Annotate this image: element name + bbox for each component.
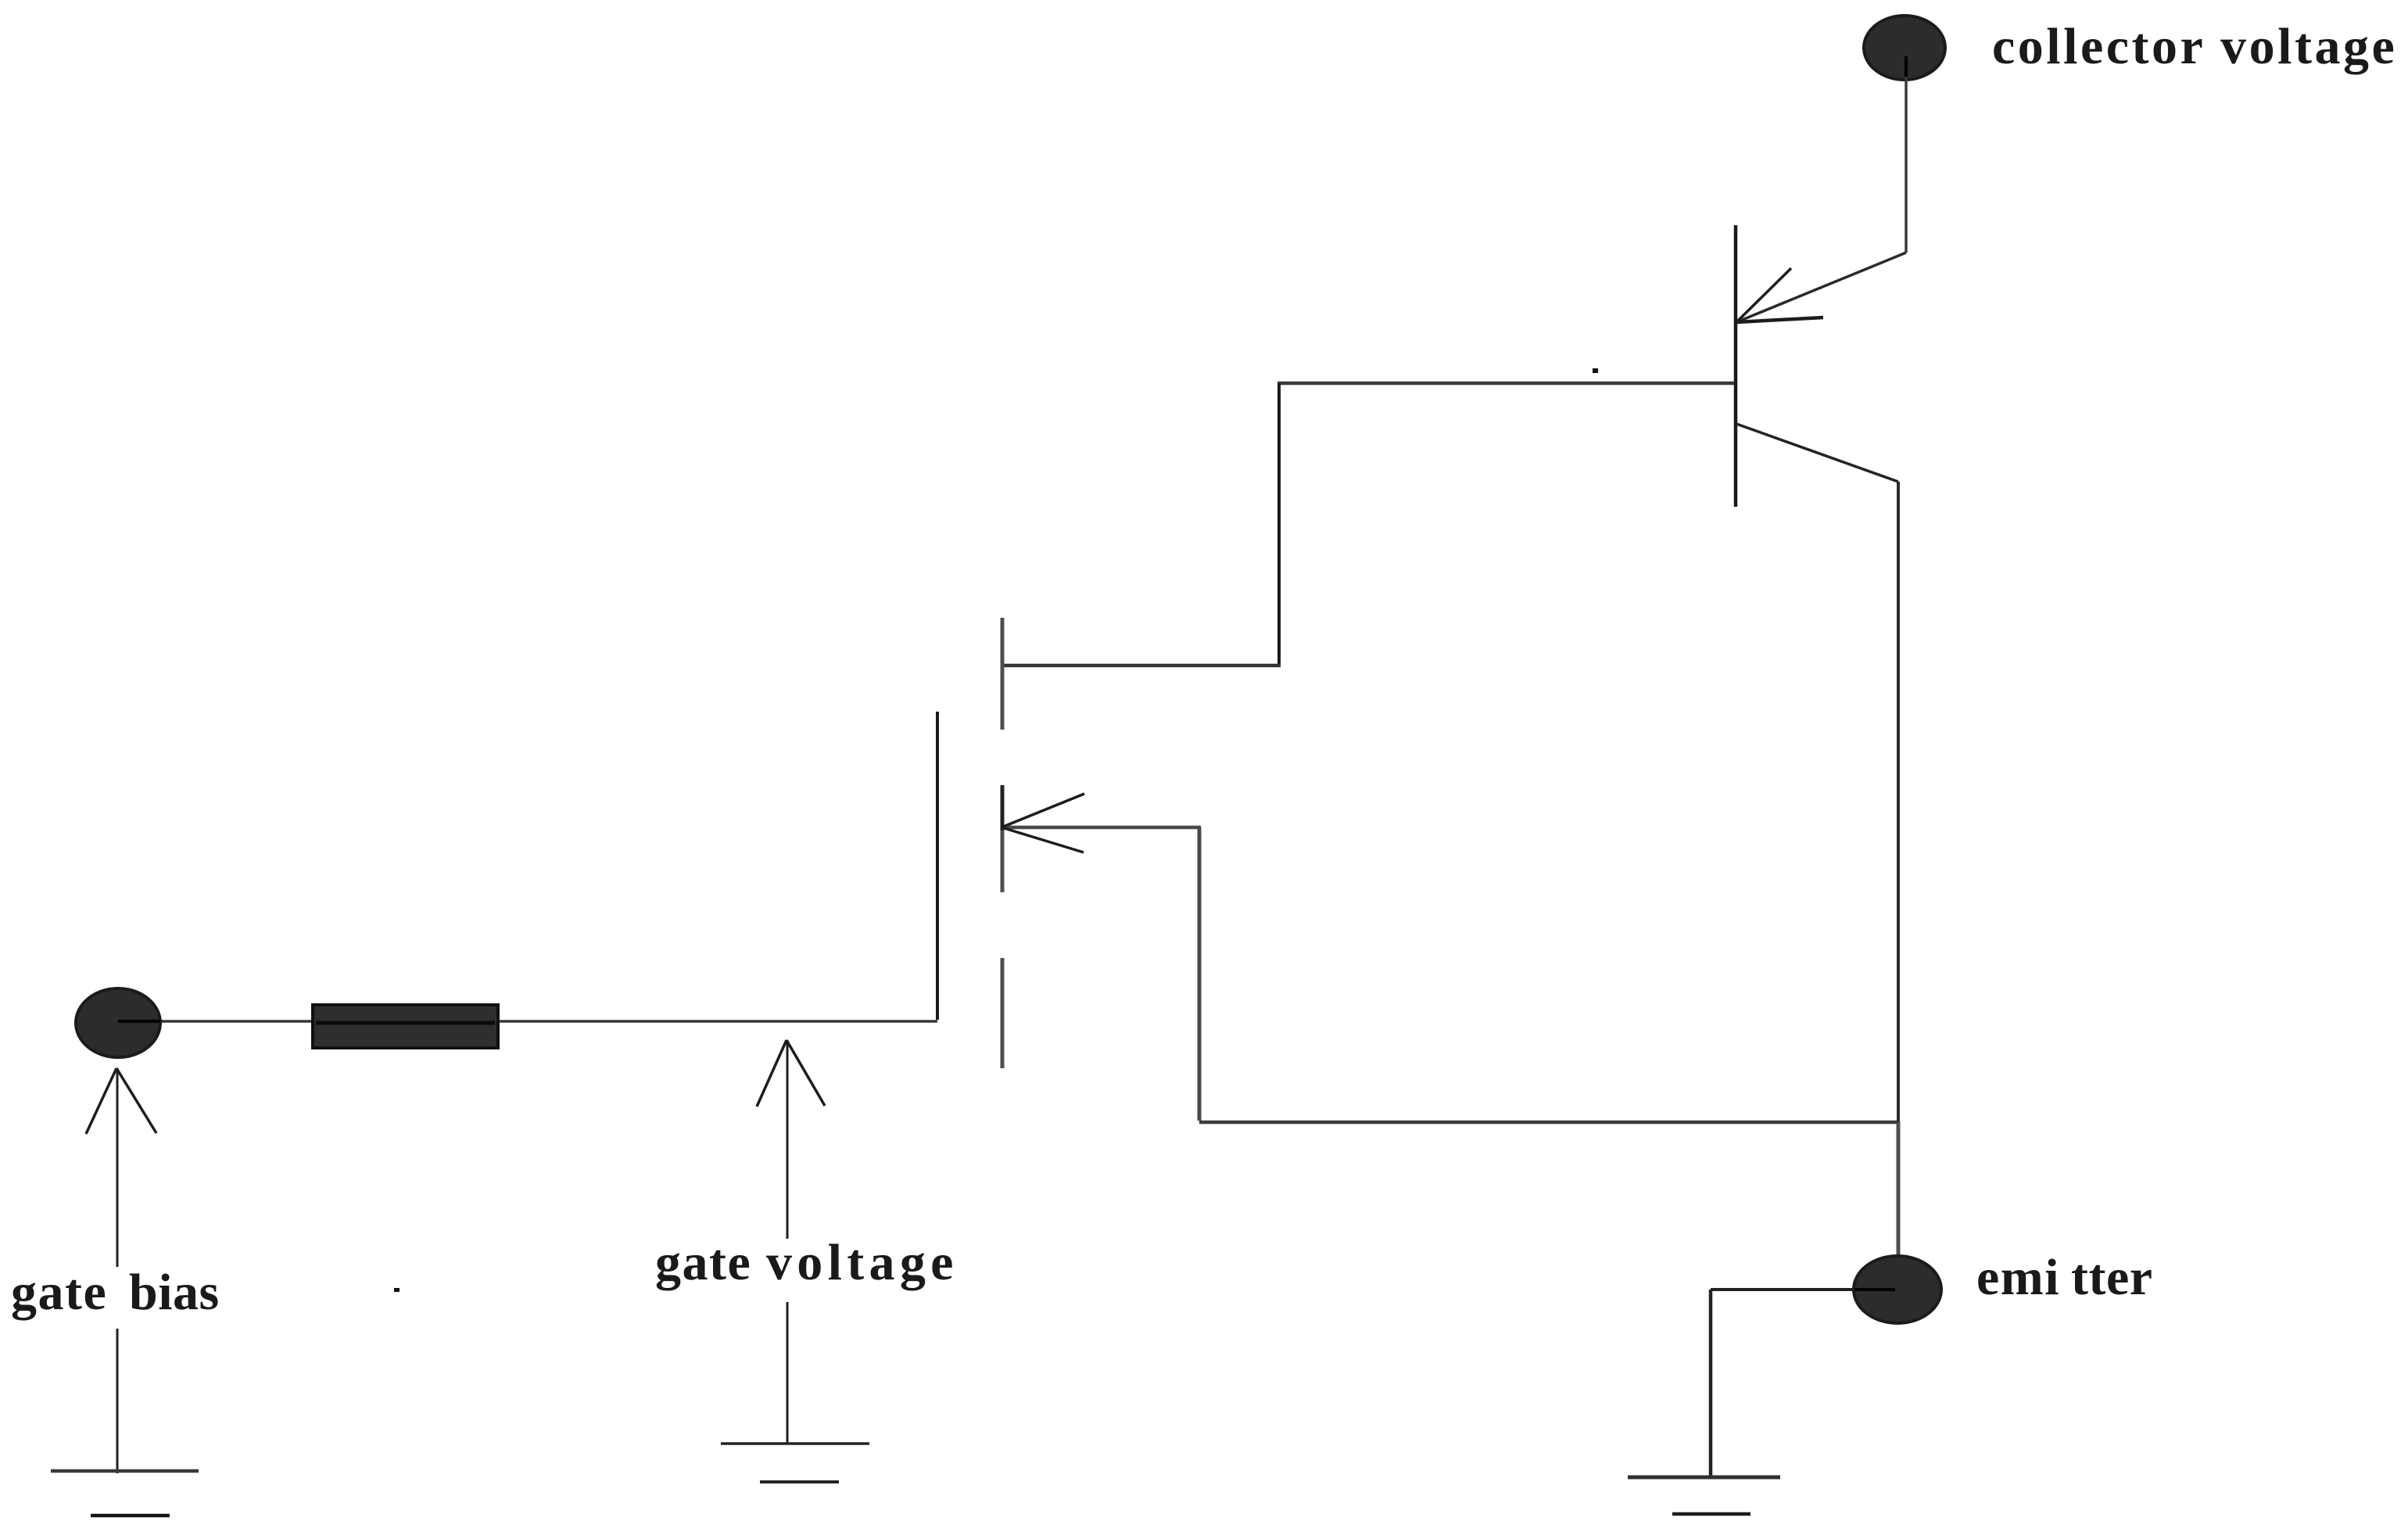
MOSFET M1 channel dash 2 (body): [1001, 785, 1005, 830]
gate bias arrow stem: [116, 1068, 119, 1267]
MOSFET M1 channel dash 1 (drain): [1001, 618, 1005, 730]
gate voltage arrowhead: [757, 1040, 787, 1107]
stray dot A: [1593, 368, 1598, 373]
wire: drain horizontal: [1002, 664, 1281, 668]
ground (gate bias) line 1: [51, 1469, 199, 1473]
wire: emitter ground horizontal: [1711, 1288, 1854, 1291]
wire: emitter vertical lower: [1897, 1122, 1901, 1257]
gate bias arrowhead: [86, 1068, 116, 1134]
transistor Q1 base bar: [1734, 225, 1738, 507]
body arrow barb lower: [1002, 827, 1084, 852]
svg-text:tter: tter: [2071, 1249, 2153, 1306]
gate voltage arrow stem: [787, 1040, 789, 1239]
node: collector voltage terminal: [1864, 16, 1945, 80]
wire: emitter vertical upper: [1897, 482, 1900, 1122]
transistor Q1 emitter diagonal: [1736, 424, 1898, 482]
body arrow barb upper: [1002, 794, 1084, 827]
wire: source to emitter horizontal: [1199, 1121, 1900, 1125]
collector arrowhead barb lower: [1736, 317, 1823, 322]
MOSFET M1 gate bar: [936, 712, 939, 1020]
ground (emitter) line 1: [1628, 1476, 1780, 1480]
svg-text:voltage: voltage: [766, 1234, 959, 1291]
svg-text:gate: gate: [655, 1234, 751, 1291]
svg-text:bias: bias: [129, 1264, 220, 1321]
ground (gate voltage) line 1: [721, 1442, 869, 1445]
wire: collector vertical lead: [1905, 77, 1908, 253]
MOSFET M1 channel dash 3 (source): [1001, 958, 1005, 1068]
ground (gate voltage) line 2: [760, 1480, 839, 1483]
wire: emitter ground vertical: [1709, 1290, 1713, 1476]
ground (gate bias) line 2: [91, 1514, 170, 1518]
node: gate bias terminal: [76, 988, 160, 1057]
node: emitter terminal: [1854, 1256, 1941, 1323]
MOSFET M1 body arrow line: [1002, 826, 1201, 830]
wire: base horizontal: [1277, 382, 1734, 386]
svg-text:collector voltage: collector voltage: [1992, 18, 2397, 75]
wire: base-to-drain vertical: [1277, 383, 1281, 664]
svg-text:emi: emi: [1976, 1249, 2060, 1306]
resistor R1: [313, 1005, 498, 1048]
wire: source vertical: [1198, 827, 1202, 1121]
stray dot B: [394, 1288, 400, 1292]
ground (emitter) line 2: [1672, 1512, 1750, 1516]
svg-text:gate: gate: [11, 1264, 107, 1321]
collector arrowhead barb upper: [1736, 268, 1791, 322]
transistor Q1 (BJT) collector diagonal: [1736, 253, 1906, 322]
wire: gate horizontal: [156, 1020, 937, 1023]
